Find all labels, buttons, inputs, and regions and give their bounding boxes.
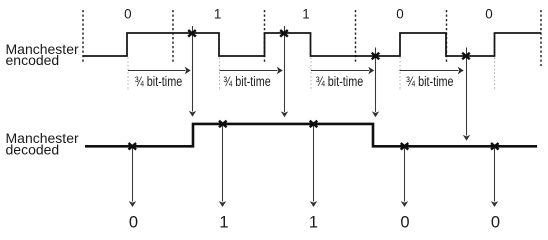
- svg-text:¾ bit-time: ¾ bit-time: [135, 74, 183, 89]
- svg-text:0: 0: [129, 214, 138, 231]
- svg-text:¾ bit-time: ¾ bit-time: [406, 74, 454, 89]
- svg-text:0: 0: [491, 214, 500, 231]
- svg-text:encoded: encoded: [6, 52, 60, 68]
- svg-text:¾ bit-time: ¾ bit-time: [316, 74, 364, 89]
- svg-text:0: 0: [124, 6, 131, 21]
- svg-text:1: 1: [219, 214, 228, 231]
- svg-text:decoded: decoded: [6, 142, 60, 158]
- svg-text:1: 1: [302, 6, 309, 21]
- svg-text:0: 0: [485, 6, 492, 21]
- svg-text:1: 1: [214, 6, 221, 21]
- svg-text:0: 0: [400, 214, 409, 231]
- svg-text:0: 0: [396, 6, 403, 21]
- svg-text:¾ bit-time: ¾ bit-time: [223, 74, 271, 89]
- svg-text:1: 1: [309, 214, 318, 231]
